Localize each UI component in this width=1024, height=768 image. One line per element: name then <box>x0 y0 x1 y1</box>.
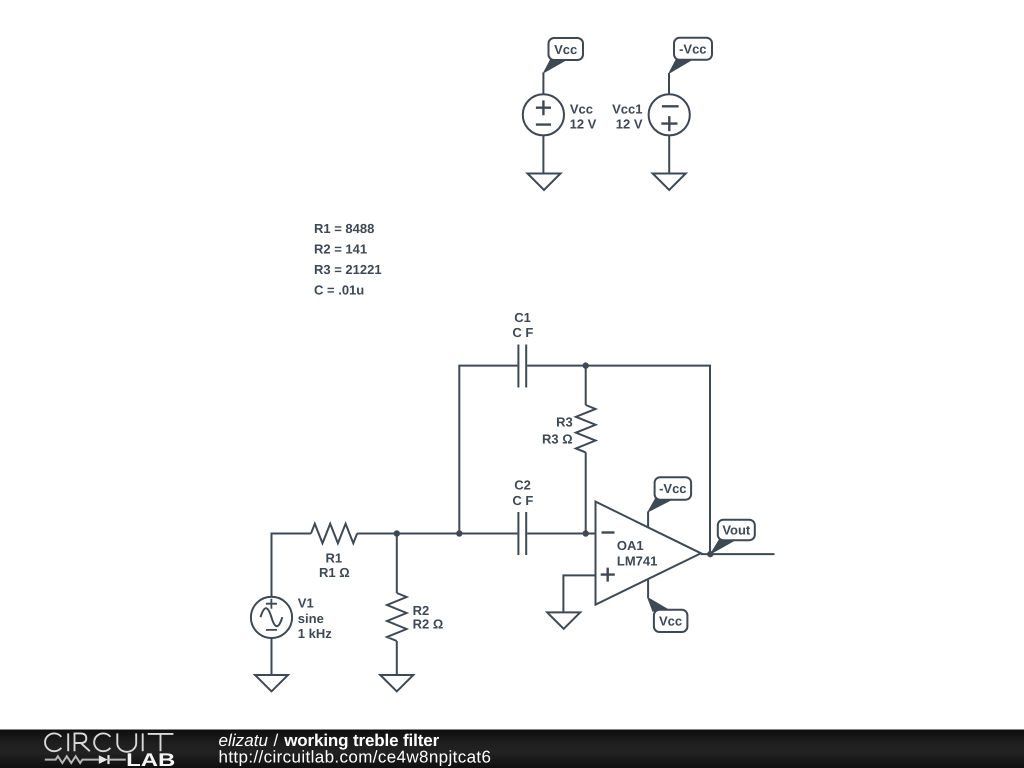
svg-text:LAB: LAB <box>126 749 175 768</box>
svg-text:R1 = 8488: R1 = 8488 <box>314 221 374 236</box>
logo CIRCUIT wordmark <box>45 733 173 751</box>
net flag -Vcc on op-amp top power pin <box>647 477 691 513</box>
wire V3 bottom <box>668 135 670 173</box>
wire node B to C2 <box>459 533 517 535</box>
label R3 value <box>542 414 573 446</box>
wire node B up and right to C1 <box>459 366 517 534</box>
svg-text:12 V: 12 V <box>616 117 643 132</box>
ground below V2 <box>528 174 561 191</box>
wire V2 top <box>542 73 544 95</box>
capacitor C2 <box>518 512 526 555</box>
label V2 value Vcc 12 V <box>570 101 597 131</box>
voltage source V1 sine <box>251 597 292 638</box>
junction node C <box>583 362 589 368</box>
svg-text:C F: C F <box>512 325 533 340</box>
resistor R2 <box>387 593 407 641</box>
wire node A to node B <box>397 533 460 535</box>
wire V1 bottom <box>271 638 273 675</box>
svg-text:V1: V1 <box>298 596 314 611</box>
wire C1 to node C <box>527 365 586 367</box>
voltage source V2 Vcc <box>523 94 564 135</box>
logo resistor squiggle <box>45 756 99 763</box>
svg-text:-Vcc: -Vcc <box>679 42 706 57</box>
wire node D to op-amp inverting input <box>586 533 596 535</box>
label C2 value <box>512 478 533 508</box>
svg-text:R3: R3 <box>556 414 573 429</box>
footer bar <box>0 730 1024 768</box>
svg-text:Vcc: Vcc <box>554 42 577 57</box>
logo LAB wordmark <box>126 749 175 768</box>
svg-text:Vcc: Vcc <box>570 101 593 116</box>
label R1 value <box>319 550 350 580</box>
capacitor C1 <box>518 345 526 388</box>
svg-text:R2 = 141: R2 = 141 <box>314 242 367 257</box>
op-amp bottom power pin <box>647 579 649 598</box>
annotation parameter text block <box>314 221 382 298</box>
svg-text:Vout: Vout <box>722 523 751 538</box>
svg-text:1 kHz: 1 kHz <box>298 626 332 641</box>
wire node C to output corner (feedback) <box>586 366 710 554</box>
net flag Vcc on V2 <box>542 38 583 74</box>
svg-text:C = .01u: C = .01u <box>314 283 364 298</box>
svg-text:-Vcc: -Vcc <box>659 481 686 496</box>
label R2 value <box>413 603 444 632</box>
wire R1 to node A <box>357 533 397 535</box>
svg-text:R1: R1 <box>325 550 342 565</box>
svg-text:R2 Ω: R2 Ω <box>413 617 444 632</box>
svg-text:R3 = 21221: R3 = 21221 <box>314 262 382 277</box>
resistor R3 <box>576 366 596 534</box>
junction node B <box>456 530 462 536</box>
wire op-amp output <box>701 553 775 555</box>
svg-text:R1 Ω: R1 Ω <box>319 565 350 580</box>
wire non-inverting input to ground <box>563 575 595 611</box>
op-amp OA1 LM741 <box>596 502 702 605</box>
junction output node <box>707 551 713 557</box>
svg-text:C2: C2 <box>514 478 531 493</box>
junction node D <box>583 530 589 536</box>
svg-text:R3 Ω: R3 Ω <box>542 431 573 446</box>
ground below V1 <box>255 675 288 691</box>
wire C2 to node D <box>527 533 586 535</box>
svg-text:OA1: OA1 <box>617 538 644 553</box>
net flag Vout on output <box>710 520 755 555</box>
wire V3 top <box>668 73 670 94</box>
wire V2 bottom <box>542 135 544 173</box>
op-amp top power pin <box>647 512 649 528</box>
svg-text:sine: sine <box>298 611 324 626</box>
wire node A down to R2 <box>396 534 398 594</box>
ground below V3 <box>653 174 686 191</box>
junction node A <box>394 530 400 536</box>
logo diode <box>99 755 126 764</box>
wire R2 to ground <box>396 641 398 675</box>
ground at op-amp non-inverting input <box>547 612 580 628</box>
svg-text:Vcc1: Vcc1 <box>612 101 642 116</box>
svg-text:C1: C1 <box>514 310 531 325</box>
svg-text:12 V: 12 V <box>570 117 597 132</box>
svg-text:Vcc: Vcc <box>659 614 682 629</box>
svg-text:LM741: LM741 <box>617 554 657 569</box>
voltage source V3 Vcc1 <box>649 94 690 135</box>
label V1 sine 1 kHz <box>298 596 332 642</box>
svg-text:C F: C F <box>512 493 533 508</box>
wire V1 to R1 <box>272 534 312 597</box>
net flag -Vcc on V3 <box>668 38 712 75</box>
net flag Vcc on op-amp bottom power pin <box>647 597 688 633</box>
resistor R1 <box>311 524 357 544</box>
label V3 value Vcc1 12 V <box>612 101 643 131</box>
svg-text:http://circuitlab.com/ce4w8npj: http://circuitlab.com/ce4w8npjtcat6 <box>219 747 492 766</box>
label C1 value <box>512 310 533 340</box>
ground below R2 <box>380 675 413 691</box>
